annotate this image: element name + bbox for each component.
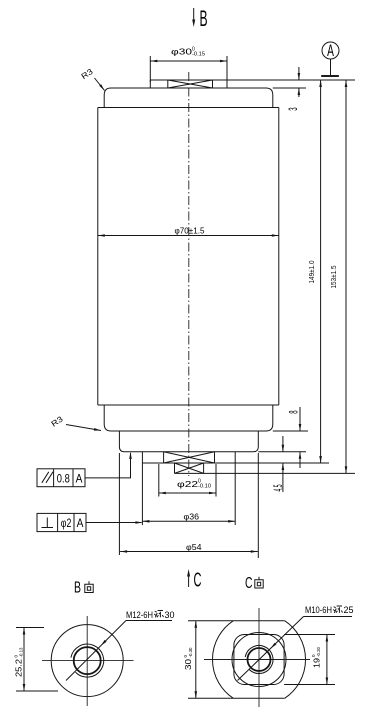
phi54 flange xyxy=(119,431,258,452)
dimension phi22 0/-0.10 xyxy=(159,464,216,497)
view C thread major arc xyxy=(245,645,273,673)
dimension 3 (boss height) xyxy=(287,67,301,111)
VIEW C: outer phi36 circle with flats xyxy=(188,621,306,698)
svg-text:M12-6H: M12-6H xyxy=(126,610,153,620)
view C threaded hole M10 minor xyxy=(248,648,271,671)
svg-text:153±1.5: 153±1.5 xyxy=(331,265,338,288)
svg-text:φ2: φ2 xyxy=(61,516,72,530)
dimension 149±1.0 xyxy=(309,80,322,463)
dimension phi70±1.5 xyxy=(98,226,279,237)
svg-text:-0.15: -0.15 xyxy=(192,52,205,58)
svg-text:25: 25 xyxy=(344,605,354,615)
view C crosshair xyxy=(204,659,310,661)
svg-text:C: C xyxy=(193,569,201,591)
perpendicularity frame ⊥|φ2|A xyxy=(37,513,142,531)
svg-text:19: 19 xyxy=(313,657,322,668)
R3 label bottom xyxy=(50,414,101,430)
svg-text:25.2: 25.2 xyxy=(14,659,24,677)
svg-text:-0.20: -0.20 xyxy=(316,647,321,657)
flat symbol (crossed box) on phi22 section xyxy=(164,452,215,463)
section arrow C xyxy=(187,569,202,591)
phi36 disc xyxy=(142,452,329,463)
view C leader M10-6H深25 xyxy=(238,605,354,681)
svg-text:C: C xyxy=(245,575,253,592)
section arrow B xyxy=(192,6,207,31)
bottom stem end with flat symbol xyxy=(175,463,356,473)
dimension phi54 xyxy=(119,453,258,558)
cap top extension line (right) xyxy=(273,87,306,89)
svg-text:30: 30 xyxy=(184,658,193,670)
svg-text:-0.13: -0.13 xyxy=(19,647,24,657)
view B crosshair xyxy=(42,660,134,662)
R3 label top xyxy=(80,67,105,91)
svg-text:φ54: φ54 xyxy=(186,542,202,552)
svg-text:149±1.0: 149±1.0 xyxy=(309,260,316,283)
view B thread major arc xyxy=(71,644,104,677)
VIEW B: outer circle phi30 boss xyxy=(51,625,123,697)
flat symbol (crossed box) on top boss xyxy=(168,80,213,88)
dimension phi36 xyxy=(142,463,235,525)
view B dimension 25.2 0/-0.13 xyxy=(14,628,59,692)
view C dimension 19 0/-0.20 xyxy=(311,635,328,685)
parallelism frame //|0.8|A xyxy=(37,452,132,487)
svg-text:8: 8 xyxy=(288,410,302,413)
svg-text:A: A xyxy=(76,471,83,485)
svg-text:4,5: 4,5 xyxy=(271,485,284,492)
svg-text:φ70±1.5: φ70±1.5 xyxy=(175,226,205,236)
view C phi22 circle xyxy=(232,633,286,687)
svg-text:-0.30: -0.30 xyxy=(188,647,193,657)
svg-text:0.8: 0.8 xyxy=(57,471,70,485)
dimension phi30 0/-0.15 xyxy=(150,47,227,83)
dimension 4,5 xyxy=(271,436,284,492)
datum A flag xyxy=(321,42,339,76)
view C square flat section xyxy=(234,635,284,685)
label C向 xyxy=(245,575,263,592)
bottom cap extension line (right) xyxy=(273,430,308,432)
view C dimension 30 0/-0.30 xyxy=(183,621,197,698)
top cap plate xyxy=(104,88,273,108)
svg-text:A: A xyxy=(327,42,334,60)
top boss phi30 xyxy=(150,80,355,88)
dimension 153±1.5 xyxy=(331,80,347,473)
svg-text:3: 3 xyxy=(287,107,301,110)
svg-text:M10-6H: M10-6H xyxy=(305,605,332,615)
svg-text:B: B xyxy=(74,580,81,597)
bottom cap plate xyxy=(104,405,273,431)
label B向 xyxy=(74,580,93,597)
svg-text:φ22: φ22 xyxy=(177,479,198,489)
view B threaded hole M12 minor xyxy=(74,647,101,674)
svg-text:B: B xyxy=(200,6,208,31)
view C extension lines right xyxy=(284,634,335,636)
centerline front view xyxy=(188,72,190,476)
svg-text:φ30: φ30 xyxy=(171,47,192,57)
view B leader M12-6H深30 xyxy=(66,610,175,681)
svg-text:30: 30 xyxy=(165,610,175,620)
ceramic body phi70 xyxy=(98,108,279,406)
svg-text:A: A xyxy=(77,516,84,530)
svg-text:-0.10: -0.10 xyxy=(198,484,211,490)
svg-text:φ36: φ36 xyxy=(184,511,200,521)
dimension 8 (flange thickness) xyxy=(288,407,302,468)
flange bottom extension line (right) xyxy=(258,451,306,453)
